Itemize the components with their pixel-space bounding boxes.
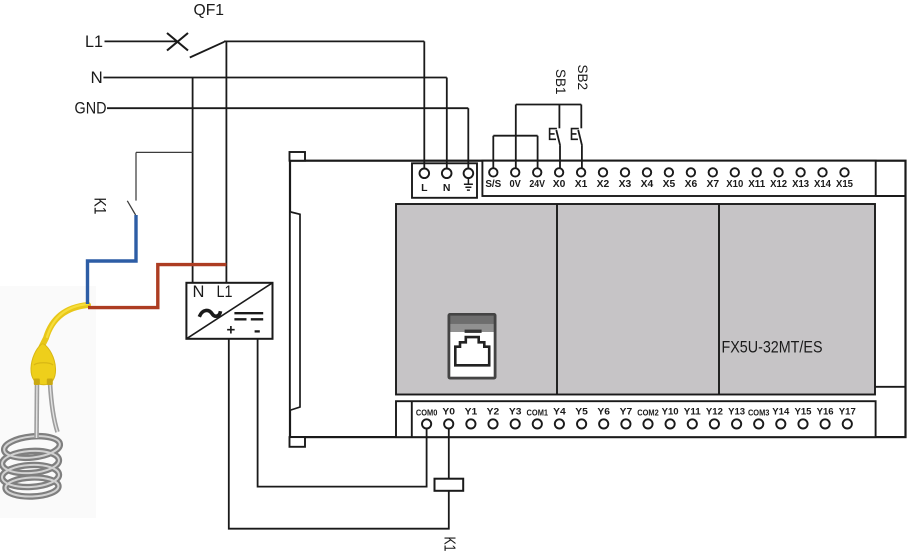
svg-text:K1: K1 [91,198,109,215]
svg-text:S/S: S/S [485,179,501,190]
svg-text:Y5: Y5 [575,406,588,417]
svg-text:K1: K1 [440,537,457,552]
svg-text:COM2: COM2 [637,409,659,418]
svg-text:X2: X2 [597,179,610,190]
svg-text:X11: X11 [748,179,765,190]
svg-text:Y17: Y17 [839,406,856,417]
svg-text:Y1: Y1 [465,406,478,417]
svg-text:N: N [443,182,451,194]
svg-text:Y15: Y15 [795,406,813,417]
svg-text:X4: X4 [641,179,654,190]
svg-text:N: N [91,68,103,87]
svg-text:COM1: COM1 [527,409,549,418]
svg-text:X14: X14 [814,179,831,190]
svg-text:X3: X3 [619,179,632,190]
svg-text:COM0: COM0 [416,409,438,418]
svg-text:QF1: QF1 [194,2,225,19]
svg-text:Y4: Y4 [553,406,566,417]
svg-text:Y0: Y0 [442,406,455,417]
svg-text:X13: X13 [792,179,809,190]
svg-text:24V: 24V [529,179,545,190]
svg-text:X15: X15 [836,179,853,190]
svg-text:COM3: COM3 [748,409,770,418]
svg-text:Y6: Y6 [597,406,610,417]
svg-text:Y10: Y10 [662,406,679,417]
svg-text:X1: X1 [575,179,588,190]
svg-text:X0: X0 [553,179,566,190]
svg-text:X6: X6 [685,179,698,190]
svg-text:N: N [193,283,205,301]
svg-text:L1: L1 [217,283,233,301]
svg-text:Y7: Y7 [620,406,633,417]
svg-text:Y14: Y14 [772,406,790,417]
svg-text:0V: 0V [510,179,522,190]
svg-text:X7: X7 [707,179,720,190]
svg-text:+: + [227,322,236,339]
svg-text:FX5U-32MT/ES: FX5U-32MT/ES [722,339,823,357]
svg-text:Y2: Y2 [487,406,500,417]
svg-text:SB2: SB2 [575,65,590,91]
svg-text:Y12: Y12 [706,406,723,417]
svg-text:L1: L1 [85,32,103,51]
svg-text:X10: X10 [726,179,743,190]
svg-text:Y13: Y13 [728,406,745,417]
svg-text:X12: X12 [770,179,787,190]
svg-text:SB1: SB1 [553,69,568,95]
svg-text:L: L [421,182,428,194]
svg-text:Y11: Y11 [684,406,702,417]
svg-text:Y16: Y16 [817,406,834,417]
svg-text:X5: X5 [663,179,676,190]
svg-text:GND: GND [75,99,107,118]
svg-text:Y3: Y3 [509,406,522,417]
